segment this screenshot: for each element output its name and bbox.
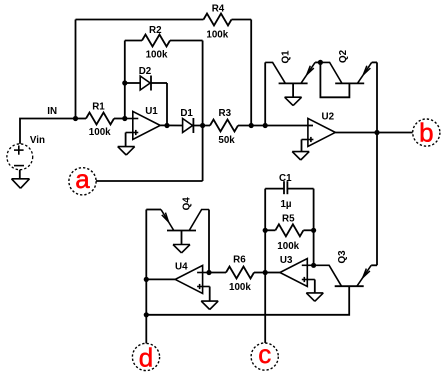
wire C1 left lead xyxy=(265,188,284,190)
svg-text:Q2: Q2 xyxy=(338,49,349,63)
op-amp U2 xyxy=(308,118,335,146)
label Q2 xyxy=(338,49,349,63)
U1 plus input stub xyxy=(126,132,139,134)
node dot IN xyxy=(73,116,78,121)
ground below Q4 xyxy=(173,245,190,253)
svg-text:U3: U3 xyxy=(280,255,293,266)
wire Q2 base hook xyxy=(320,62,349,97)
transistor Q4 base bar xyxy=(167,230,196,232)
Vin minus sign xyxy=(14,165,24,167)
resistor R2 xyxy=(142,35,170,47)
label D1 xyxy=(180,108,193,119)
node dot U2 output xyxy=(374,130,379,135)
wire node a to R2 column xyxy=(96,180,203,182)
wire Q1 collector column xyxy=(264,62,266,125)
wire U4 plus to ground xyxy=(209,287,211,302)
U3 minus input stub xyxy=(302,264,314,266)
wire R3 right lead to U2 input xyxy=(238,125,313,127)
transistor Q2 collector xyxy=(320,62,342,83)
wire Q3 base down and across xyxy=(146,286,349,315)
svg-text:d: d xyxy=(139,342,153,372)
wire U2 output to node b xyxy=(335,132,413,134)
wire R2 right lead xyxy=(170,40,203,42)
ground below U1 xyxy=(118,147,135,155)
transistor Q4 emitter with arrow xyxy=(161,210,174,231)
U4 plus sign tick xyxy=(199,284,201,289)
wire R4 column down xyxy=(250,20,252,126)
U2 plus sign tick xyxy=(310,137,312,142)
wire U1 output xyxy=(160,124,182,126)
node dot R4 junction xyxy=(249,123,254,128)
wire U1 feedback column xyxy=(124,41,126,119)
svg-text:R5: R5 xyxy=(282,213,295,224)
wire R1 right lead xyxy=(114,118,125,120)
svg-text:U1: U1 xyxy=(145,106,158,117)
svg-text:100k: 100k xyxy=(206,30,228,41)
wire D1 cathode lead xyxy=(193,125,210,127)
U4 plus input stub xyxy=(197,286,210,288)
wire Q4 emitter corner xyxy=(146,209,161,211)
svg-text:R1: R1 xyxy=(92,101,105,112)
wire U1 plus to ground xyxy=(125,133,127,147)
wire column to node c xyxy=(264,273,266,344)
label R3 xyxy=(219,108,232,119)
resistor R4 xyxy=(204,14,232,26)
wire D2 return column xyxy=(166,83,168,126)
svg-text:Vin: Vin xyxy=(30,135,45,146)
svg-text:D1: D1 xyxy=(180,108,193,119)
resistor R1 xyxy=(86,113,114,125)
transistor Q2 emitter with arrow xyxy=(357,62,371,83)
wire D2 anode lead xyxy=(125,82,140,84)
label 100k of R2 xyxy=(146,50,168,61)
wire R6 left lead xyxy=(209,272,226,274)
transistor Q3 collector xyxy=(314,265,342,286)
U3 plus sign tick xyxy=(303,277,305,282)
svg-text:U4: U4 xyxy=(175,261,188,272)
label 100k of R4 xyxy=(206,30,228,41)
label U2 xyxy=(322,111,335,122)
ground below Q1 xyxy=(285,97,302,105)
op-amp U3 xyxy=(280,259,307,287)
node dot U1 output xyxy=(164,123,169,128)
wire C1 right lead xyxy=(287,188,313,190)
svg-text:100k: 100k xyxy=(146,50,168,61)
diode D1 xyxy=(183,118,194,133)
wire R6 right lead xyxy=(254,272,265,274)
svg-text:c: c xyxy=(258,339,271,369)
label R2 xyxy=(149,25,162,36)
node dot R5 right xyxy=(311,228,316,233)
wire top from IN column to R4 xyxy=(76,19,204,21)
svg-text:C1: C1 xyxy=(279,173,292,184)
node dot U4 minus xyxy=(206,270,211,275)
wire R5 right lead xyxy=(303,229,313,231)
U1 plus sign tick xyxy=(135,130,137,135)
wire U3 output to node xyxy=(265,272,280,274)
svg-text:100k: 100k xyxy=(89,127,111,138)
ground below U4 xyxy=(201,301,218,309)
label D2 xyxy=(139,66,152,77)
node a xyxy=(69,164,96,195)
node dot U3 minus xyxy=(311,263,316,268)
label U1 xyxy=(145,106,158,117)
label R1 xyxy=(92,101,105,112)
svg-text:U2: U2 xyxy=(322,111,335,122)
svg-text:R4: R4 xyxy=(212,4,225,15)
label R4 xyxy=(212,4,225,15)
transistor Q1 base bar xyxy=(279,82,308,84)
ground below Vin xyxy=(12,179,30,189)
resistor R5 xyxy=(275,224,303,236)
node dot U4 output xyxy=(144,277,149,282)
transistor Q2 base bar xyxy=(335,82,364,84)
node dot D2 anode xyxy=(122,80,127,85)
transistor Q1 emitter with arrow xyxy=(301,62,315,83)
node dot U3 output xyxy=(263,270,268,275)
node dot Q1 collector junction xyxy=(263,123,268,128)
svg-text:Q3: Q3 xyxy=(337,250,348,264)
wire Q4 collector column xyxy=(208,210,210,273)
svg-text:R2: R2 xyxy=(149,25,162,36)
label Q4 xyxy=(182,197,193,211)
label 1µ of C1 xyxy=(280,199,291,210)
wire Q1 base stem xyxy=(292,83,294,97)
svg-text:50k: 50k xyxy=(218,135,235,146)
transistor Q1 collector xyxy=(265,62,285,83)
label R5 xyxy=(282,213,295,224)
U1 minus input stub xyxy=(125,118,139,120)
ground below U2 xyxy=(292,152,309,160)
U4 minus input stub xyxy=(197,272,209,274)
svg-text:1µ: 1µ xyxy=(280,199,291,210)
wire Q4 base stem xyxy=(181,231,183,245)
label U4 xyxy=(175,261,188,272)
node b xyxy=(413,117,440,147)
node d xyxy=(132,342,159,372)
wire Q2 emitter corner xyxy=(372,61,377,63)
transistor Q3 base bar xyxy=(335,285,364,287)
wire R2 left lead xyxy=(125,40,142,42)
node dot R5 left xyxy=(263,228,268,233)
svg-text:R3: R3 xyxy=(219,108,232,119)
svg-text:a: a xyxy=(75,164,90,194)
label Vin xyxy=(30,135,45,146)
svg-text:b: b xyxy=(419,117,433,147)
transistor Q4 collector xyxy=(189,210,209,231)
wire column Q4 emitter to node d xyxy=(145,210,147,344)
node dot D1 cathode feedback node xyxy=(200,123,205,128)
svg-text:Q1: Q1 xyxy=(280,50,291,64)
svg-text:D2: D2 xyxy=(139,66,152,77)
wire R5 left lead xyxy=(265,229,275,231)
capacitor C1 xyxy=(284,181,287,194)
node c xyxy=(251,339,278,370)
wire Q1 emitter to node xyxy=(315,61,320,63)
label R6 xyxy=(233,255,246,266)
diode D2 xyxy=(140,76,151,91)
ground below U3 xyxy=(306,293,323,301)
svg-text:100k: 100k xyxy=(229,282,251,293)
label U3 xyxy=(280,255,293,266)
wire U4 output xyxy=(146,278,175,280)
wire R2 column down to node a wire xyxy=(202,41,204,182)
label 100k of R1 xyxy=(89,127,111,138)
label 100k of R6 xyxy=(229,282,251,293)
label 50k of R3 xyxy=(218,135,235,146)
transistor Q3 emitter with arrow xyxy=(357,265,371,286)
node dot lower left junction xyxy=(144,312,149,317)
U3 plus input stub xyxy=(302,279,315,281)
wire R1 left lead xyxy=(76,118,87,120)
wire Vin top xyxy=(20,119,76,144)
resistor R3 xyxy=(210,120,238,132)
wire R4 right lead xyxy=(232,19,252,21)
voltage source Vin circle xyxy=(7,144,33,170)
label Q1 xyxy=(280,50,291,64)
resistor R6 xyxy=(226,267,254,279)
node dot Q1 emitter Q2 junction xyxy=(318,60,323,65)
wire Q3 emitter corner xyxy=(371,264,377,266)
svg-text:Q4: Q4 xyxy=(182,197,193,211)
node dot U1 inverting input xyxy=(122,116,127,121)
wire D2 cathode lead xyxy=(151,82,167,84)
svg-text:R6: R6 xyxy=(233,255,246,266)
wire C1 left column down xyxy=(264,189,266,273)
label C1 xyxy=(279,173,292,184)
label IN xyxy=(47,106,57,117)
wire IN column up xyxy=(75,20,77,119)
op-amp U1 xyxy=(133,111,160,139)
Vin plus sign xyxy=(14,146,24,155)
op-amp U4 xyxy=(175,265,202,293)
wire U3 plus to ground xyxy=(314,280,316,293)
svg-text:IN: IN xyxy=(47,106,57,117)
label 100k of R5 xyxy=(277,241,299,252)
label Q3 xyxy=(337,250,348,264)
wire U2 plus to ground xyxy=(301,140,303,152)
wire Vin bottom xyxy=(19,170,21,179)
wire C1 right column down xyxy=(313,189,315,266)
U2 plus input stub xyxy=(302,139,314,141)
wire right column Q2 emitter to Q3 emitter xyxy=(376,62,378,265)
svg-text:100k: 100k xyxy=(277,241,299,252)
